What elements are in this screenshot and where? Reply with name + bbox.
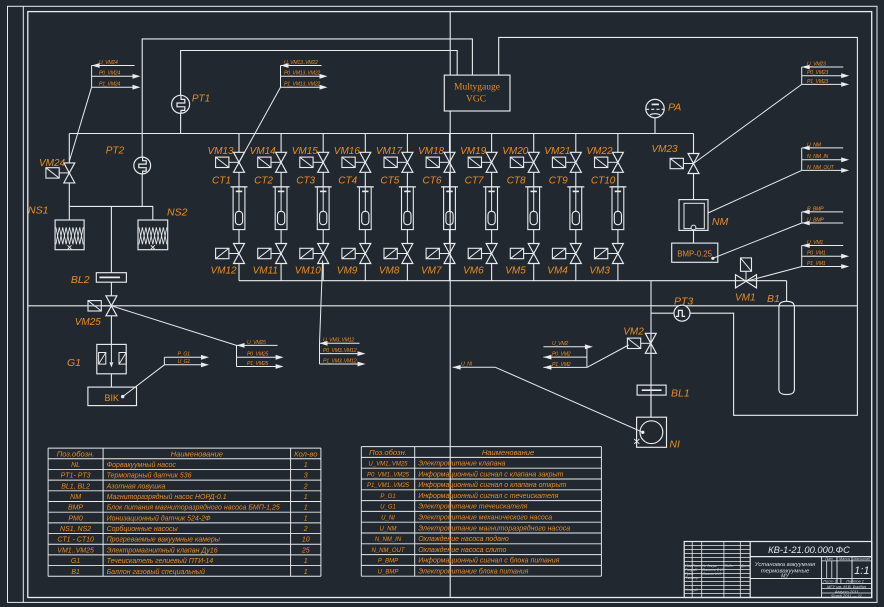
svg-text:BL1: BL1 bbox=[671, 388, 690, 400]
wire VM22 to CT10 bbox=[617, 172, 619, 187]
valve VM12 bbox=[216, 244, 245, 264]
node signal group VM3..VM12 bbox=[320, 338, 366, 367]
valve VM9 bbox=[342, 244, 371, 264]
svg-text:Электропитание блока питания: Электропитание блока питания bbox=[418, 568, 528, 576]
filing margin line bbox=[22, 6, 24, 602]
wire VM5 to bottom manifold bbox=[533, 264, 535, 281]
svg-text:CT9: CT9 bbox=[549, 176, 568, 187]
svg-text:Информационный сигнал с течеис: Информационный сигнал с течеискателя bbox=[418, 492, 558, 500]
cryo chamber CT3 bbox=[315, 187, 332, 230]
cryo chamber CT6 bbox=[441, 187, 458, 230]
wire CT7 to VM6 bbox=[491, 230, 493, 244]
svg-text:U_VM1..VM25: U_VM1..VM25 bbox=[368, 462, 408, 468]
wire VM12 to bottom manifold bbox=[238, 264, 240, 281]
svg-text:VM14: VM14 bbox=[250, 146, 277, 157]
node signal group G1 bbox=[164, 352, 209, 368]
wire BL1 to NI bbox=[650, 395, 652, 417]
svg-text:BL1, BL2: BL1, BL2 bbox=[61, 483, 90, 490]
svg-text:Подп.: Подп. bbox=[725, 564, 734, 568]
svg-text:1: 1 bbox=[304, 558, 308, 565]
valve VM24 bbox=[46, 163, 75, 183]
node signal group VM23 bbox=[802, 61, 850, 86]
svg-text:CT8: CT8 bbox=[507, 176, 526, 187]
wire VM25 to G1 bbox=[110, 316, 112, 345]
node signal group BMP bbox=[802, 206, 844, 225]
valve VM8 bbox=[384, 244, 413, 264]
valve VM17 bbox=[384, 152, 413, 172]
wire signal VM13 bbox=[239, 87, 281, 162]
valve VM1 bbox=[736, 258, 757, 288]
wire VM16 to CT4 bbox=[364, 172, 366, 187]
parts table left bbox=[48, 448, 321, 576]
node signal group VM1 bbox=[802, 240, 850, 269]
wire column VM19 riser bbox=[491, 134, 493, 153]
wire signal G1 bbox=[123, 365, 165, 397]
title block bbox=[684, 542, 872, 598]
cryo chamber CT4 bbox=[357, 187, 374, 230]
control unit BIK bbox=[88, 387, 137, 406]
svg-text:P0_VM1: P0_VM1 bbox=[807, 251, 826, 257]
svg-text:VM24: VM24 bbox=[39, 158, 66, 169]
wire VM24 to NS manifold bbox=[68, 183, 70, 207]
svg-text:N_NM_OUT: N_NM_OUT bbox=[807, 165, 835, 171]
wire top bus bbox=[69, 133, 693, 135]
wire bottom manifold of valve columns bbox=[239, 280, 787, 282]
svg-text:G1: G1 bbox=[71, 558, 80, 565]
svg-text:Информационный сигнал о клапан: Информационный сигнал о клапана открыт bbox=[418, 481, 566, 489]
wire column VM14 riser bbox=[280, 134, 282, 153]
svg-text:NL: NL bbox=[71, 462, 80, 469]
svg-text:P1_VM24: P1_VM24 bbox=[99, 82, 120, 88]
svg-text:1: 1 bbox=[304, 505, 308, 512]
wire B1 neck bbox=[786, 281, 788, 302]
gauge PA bbox=[646, 99, 664, 117]
svg-text:1: 1 bbox=[304, 494, 308, 501]
node signal U_NI bbox=[453, 362, 496, 370]
svg-text:Информационный сигнал с клапан: Информационный сигнал с клапана закрыт bbox=[418, 470, 563, 478]
wire VM9 to bottom manifold bbox=[364, 264, 366, 281]
wire column VM22 riser bbox=[617, 134, 619, 153]
valve VM11 bbox=[258, 244, 287, 264]
wire signal trunk upper bbox=[449, 12, 451, 76]
wire NM to BMP bbox=[693, 230, 695, 243]
svg-text:PT2: PT2 bbox=[106, 145, 125, 156]
wire PA stub bbox=[654, 118, 656, 134]
wire CT2 to VM11 bbox=[280, 230, 282, 244]
gauge PT1 bbox=[172, 95, 190, 113]
svg-text:VM18: VM18 bbox=[418, 146, 445, 157]
wire PT1 lower stub bbox=[180, 113, 182, 133]
svg-text:P_G1: P_G1 bbox=[380, 494, 395, 500]
valve VM23 bbox=[670, 154, 699, 174]
wire G1 to BIK bbox=[110, 374, 112, 387]
wire NS1 stub bbox=[68, 206, 70, 220]
node signal group VM13..VM22 bbox=[281, 60, 328, 90]
svg-text:Иванов И.И.: Иванов И.И. bbox=[703, 572, 722, 576]
wire column VM16 riser bbox=[364, 134, 366, 153]
wire PT2 upper stub bbox=[141, 134, 143, 158]
cryo chamber CT2 bbox=[273, 187, 290, 230]
wire VM21 to CT9 bbox=[575, 172, 577, 187]
svg-text:2: 2 bbox=[303, 483, 308, 490]
wire VM7 to bottom manifold bbox=[449, 264, 451, 281]
svg-text:U_VM1: U_VM1 bbox=[807, 240, 823, 246]
wire column VM13 riser bbox=[238, 134, 240, 153]
svg-text:P1_VM23: P1_VM23 bbox=[807, 79, 828, 85]
svg-text:PT1: PT1 bbox=[192, 93, 210, 104]
svg-text:P0_VM23: P0_VM23 bbox=[807, 70, 828, 76]
cryo chamber CT7 bbox=[483, 187, 500, 230]
wire VM24 riser bbox=[68, 134, 70, 163]
svg-text:Лит.: Лит. bbox=[824, 557, 833, 561]
svg-text:U_VM23: U_VM23 bbox=[807, 61, 826, 67]
svg-text:U_VM24: U_VM24 bbox=[99, 60, 118, 66]
svg-text:VM10: VM10 bbox=[295, 265, 322, 276]
svg-text:Охлаждение насоса слито: Охлаждение насоса слито bbox=[418, 546, 506, 554]
svg-text:B1: B1 bbox=[767, 293, 780, 305]
svg-text:VM20: VM20 bbox=[502, 146, 529, 157]
cryo chamber CT1 bbox=[231, 187, 248, 230]
valve VM13 bbox=[216, 152, 245, 172]
wire signal VM1 bbox=[746, 267, 802, 282]
magnetodischarge pump NM bbox=[679, 200, 708, 231]
sorption pump NS2 bbox=[138, 220, 168, 250]
svg-text:N_NM_OUT: N_NM_OUT bbox=[371, 548, 405, 554]
svg-text:Блок питания магниторазрядного: Блок питания магниторазрядного насоса БМ… bbox=[107, 504, 280, 512]
svg-text:U_VM3..VM12: U_VM3..VM12 bbox=[323, 338, 354, 344]
valve VM4 bbox=[552, 244, 581, 264]
svg-text:Прогреваемые вакуумные камеры: Прогреваемые вакуумные камеры bbox=[107, 537, 221, 544]
svg-text:Поз.обозн.: Поз.обозн. bbox=[57, 449, 95, 458]
svg-text:Наименование: Наименование bbox=[171, 449, 223, 458]
gauge PT3 bbox=[674, 305, 690, 321]
valve VM19 bbox=[468, 152, 497, 172]
cryo chamber CT5 bbox=[399, 187, 416, 230]
wire signal VM23 bbox=[694, 84, 802, 163]
node signal group NM bbox=[802, 142, 850, 173]
svg-text:B1: B1 bbox=[71, 569, 80, 576]
svg-text:CT4: CT4 bbox=[338, 176, 357, 187]
svg-text:U_NM: U_NM bbox=[807, 142, 822, 148]
sorption pump NS1 bbox=[55, 220, 84, 250]
wire CT1 to VM12 bbox=[238, 230, 240, 244]
svg-text:Электропитание механического н: Электропитание механического насоса bbox=[418, 515, 552, 522]
svg-text:U_VM2: U_VM2 bbox=[552, 341, 568, 347]
valve VM25 bbox=[88, 296, 117, 316]
svg-text:3: 3 bbox=[304, 473, 308, 480]
svg-text:VM19: VM19 bbox=[460, 146, 487, 157]
svg-text:VM1: VM1 bbox=[735, 292, 756, 303]
svg-text:VM5: VM5 bbox=[505, 265, 526, 276]
wire VM8 to bottom manifold bbox=[406, 264, 408, 281]
svg-text:PM0: PM0 bbox=[68, 515, 83, 522]
wire main roughing line bbox=[29, 305, 858, 307]
svg-text:Течеискатель гелиевый ПТИ-14: Течеискатель гелиевый ПТИ-14 bbox=[107, 557, 214, 565]
svg-text:1: 1 bbox=[304, 462, 308, 469]
valve VM2 bbox=[627, 333, 656, 353]
svg-text:P0_VM1..VM25: P0_VM1..VM25 bbox=[367, 472, 410, 478]
wire VM19 to CT7 bbox=[491, 172, 493, 187]
wire column VM18 riser bbox=[449, 134, 451, 153]
svg-text:CT2: CT2 bbox=[254, 176, 273, 187]
svg-text:P0_VM13..VM22: P0_VM13..VM22 bbox=[284, 71, 320, 77]
svg-text:CT7: CT7 bbox=[465, 176, 484, 187]
valve VM6 bbox=[468, 244, 497, 264]
svg-text:P_G1: P_G1 bbox=[178, 352, 191, 358]
svg-text:U_NM: U_NM bbox=[379, 526, 396, 532]
svg-text:NS1: NS1 bbox=[28, 205, 48, 217]
svg-text:VM21: VM21 bbox=[544, 146, 570, 157]
svg-text:Азотная ловушка: Азотная ловушка bbox=[106, 483, 166, 490]
wire VM4 to bottom manifold bbox=[575, 264, 577, 281]
svg-text:BL2: BL2 bbox=[71, 274, 90, 286]
svg-text:Установка вакуумная: Установка вакуумная bbox=[754, 562, 816, 568]
svg-text:1:1: 1:1 bbox=[854, 565, 869, 577]
svg-text:NI: NI bbox=[669, 438, 680, 450]
wire column VM17 riser bbox=[406, 134, 408, 153]
wire column VM20 riser bbox=[533, 134, 535, 153]
svg-text:Сорбционные насосы: Сорбционные насосы bbox=[107, 525, 179, 533]
wire VM23 riser bbox=[693, 134, 695, 154]
wire signal trunk lower bbox=[449, 111, 451, 598]
svg-text:VM11: VM11 bbox=[253, 265, 278, 276]
svg-text:Электропитание клапана: Электропитание клапана bbox=[418, 461, 505, 468]
gauge PT2 bbox=[134, 157, 151, 174]
node signal group VM2 bbox=[543, 341, 593, 370]
svg-text:VM2: VM2 bbox=[623, 326, 644, 337]
svg-text:U_BMP: U_BMP bbox=[378, 570, 399, 576]
cryo chamber CT9 bbox=[567, 187, 584, 230]
svg-text:PT3: PT3 bbox=[674, 295, 693, 307]
wire CT9 to VM4 bbox=[575, 230, 577, 244]
svg-text:Дата: Дата bbox=[740, 564, 750, 568]
wire signal VM24 bbox=[69, 87, 91, 161]
wire CT6 to VM7 bbox=[449, 230, 451, 244]
svg-text:10: 10 bbox=[302, 537, 310, 544]
svg-text:Баллон газовый специальный: Баллон газовый специальный bbox=[107, 568, 205, 576]
svg-text:CT1: CT1 bbox=[212, 176, 231, 187]
svg-text:P_BMP: P_BMP bbox=[378, 559, 398, 565]
svg-text:Multygauge: Multygauge bbox=[454, 83, 500, 93]
svg-text:VM22: VM22 bbox=[586, 146, 613, 157]
wire VM15 to CT3 bbox=[322, 172, 324, 187]
svg-text:G1: G1 bbox=[67, 357, 81, 369]
svg-text:P1_VM2: P1_VM2 bbox=[552, 362, 571, 368]
valve VM7 bbox=[426, 244, 455, 264]
wire VM18 to CT6 bbox=[449, 172, 451, 187]
wire PT2 gauge pipe to Multygauge bbox=[142, 39, 472, 134]
svg-text:Форвакуумный насос: Форвакуумный насос bbox=[107, 461, 177, 469]
svg-text:Электромагнитный клапан Ду16: Электромагнитный клапан Ду16 bbox=[107, 546, 218, 554]
svg-text:VM12: VM12 bbox=[211, 265, 238, 276]
svg-text:CT10: CT10 bbox=[591, 176, 616, 187]
wire BL2 to VM25 bbox=[110, 282, 112, 296]
wire VM10 to bottom manifold bbox=[322, 264, 324, 281]
svg-text:VM15: VM15 bbox=[292, 146, 319, 157]
svg-text:VM1..VM25: VM1..VM25 bbox=[57, 547, 94, 554]
svg-text:VM6: VM6 bbox=[463, 265, 484, 276]
valve VM18 bbox=[426, 152, 455, 172]
svg-text:VM23: VM23 bbox=[652, 144, 679, 155]
wire VM17 to CT5 bbox=[406, 172, 408, 187]
svg-text:CT6: CT6 bbox=[423, 176, 442, 187]
svg-text:BMP: BMP bbox=[68, 505, 84, 512]
gas bottle B1 bbox=[779, 301, 795, 394]
svg-text:BIK: BIK bbox=[105, 393, 120, 403]
svg-text:P0_VM25: P0_VM25 bbox=[247, 352, 268, 358]
wire VM14 to CT2 bbox=[280, 172, 282, 187]
svg-text:PA: PA bbox=[668, 101, 681, 113]
svg-text:VM17: VM17 bbox=[376, 146, 403, 157]
valve VM5 bbox=[510, 244, 539, 264]
valve VM14 bbox=[258, 152, 287, 172]
wire PT3 branch line bbox=[650, 281, 652, 418]
svg-text:Физф 2011 — 11: Физф 2011 — 11 bbox=[831, 593, 862, 598]
valve VM3 bbox=[595, 244, 624, 264]
wire column VM15 riser bbox=[322, 134, 324, 153]
svg-text:Термопарный датчик 536: Термопарный датчик 536 bbox=[107, 472, 192, 480]
svg-text:P1_VM1: P1_VM1 bbox=[807, 261, 826, 267]
wire NS2 stub bbox=[152, 206, 154, 220]
Multygauge VGC controller bbox=[444, 75, 510, 111]
wire CT4 to VM9 bbox=[364, 230, 366, 244]
svg-text:VM4: VM4 bbox=[547, 265, 568, 276]
svg-text:VM3: VM3 bbox=[589, 265, 610, 276]
signals table right bbox=[361, 447, 601, 577]
svg-text:VM8: VM8 bbox=[379, 265, 400, 276]
svg-text:VGC: VGC bbox=[466, 95, 486, 105]
wire PT3 loop pipe to Multygauge bbox=[499, 37, 858, 415]
mechanical pump NI bbox=[637, 417, 667, 447]
svg-text:Масса: Масса bbox=[839, 557, 850, 561]
svg-text:VM16: VM16 bbox=[334, 146, 361, 157]
wire NS manifold bbox=[69, 205, 153, 207]
valve VM22 bbox=[595, 152, 624, 172]
wire VM11 to bottom manifold bbox=[280, 264, 282, 281]
svg-text:U_VM25: U_VM25 bbox=[247, 340, 266, 346]
svg-text:P1_VM13..VM22: P1_VM13..VM22 bbox=[284, 82, 320, 88]
svg-text:VM13: VM13 bbox=[208, 146, 235, 157]
svg-text:N_NM_IN: N_NM_IN bbox=[807, 154, 829, 160]
wire PT2 lower stub bbox=[141, 174, 143, 207]
svg-text:P0_VM24: P0_VM24 bbox=[99, 71, 120, 77]
wire VM13 to CT1 bbox=[238, 172, 240, 187]
wire VM3 to bottom manifold bbox=[617, 264, 619, 281]
valve VM15 bbox=[300, 152, 329, 172]
cryo chamber CT8 bbox=[525, 187, 542, 230]
svg-text:CT1 - CT10: CT1 - CT10 bbox=[57, 537, 94, 544]
svg-text:Поз.обозн.: Поз.обозн. bbox=[369, 448, 407, 457]
svg-text:Информационный сигнал с блока: Информационный сигнал с блока питания bbox=[418, 557, 559, 565]
svg-text:VM9: VM9 bbox=[337, 265, 358, 276]
svg-text:PT1- PT3: PT1- PT3 bbox=[61, 473, 91, 480]
svg-text:25: 25 bbox=[301, 547, 310, 554]
wire signal VM25 bbox=[111, 306, 236, 346]
svg-text:U_G1: U_G1 bbox=[380, 505, 396, 511]
wire signal NM bbox=[708, 170, 802, 213]
valve VM10 bbox=[300, 244, 329, 264]
svg-text:Магниторазрядный насос НОРД-0.: Магниторазрядный насос НОРД-0.1 bbox=[107, 493, 227, 501]
svg-text:1: 1 bbox=[304, 515, 308, 522]
svg-text:NM: NM bbox=[70, 494, 81, 501]
valve VM16 bbox=[342, 152, 371, 172]
nitrogen trap BL1 bbox=[637, 385, 666, 395]
svg-text:P1_VM1..VM25: P1_VM1..VM25 bbox=[367, 483, 410, 489]
svg-text:N_NM_IN: N_NM_IN bbox=[375, 537, 402, 543]
wire column VM21 riser bbox=[575, 134, 577, 153]
wire VM6 to bottom manifold bbox=[491, 264, 493, 281]
svg-text:VM7: VM7 bbox=[421, 265, 442, 276]
svg-text:Охлаждение насоса подано: Охлаждение насоса подано bbox=[418, 535, 509, 543]
svg-text:NS1, NS2: NS1, NS2 bbox=[60, 526, 91, 533]
svg-text:Наименование: Наименование bbox=[482, 448, 534, 457]
svg-text:2: 2 bbox=[303, 526, 308, 533]
svg-text:U_NI: U_NI bbox=[381, 516, 395, 522]
svg-text:U_VM13..VM22: U_VM13..VM22 bbox=[284, 60, 318, 66]
svg-text:Кол-во: Кол-во bbox=[294, 449, 317, 458]
wire PT1 gauge pipe to Multygauge bbox=[181, 51, 458, 96]
svg-text:Т.контр.: Т.контр. bbox=[685, 576, 699, 580]
svg-text:КВ-1-21.00.000.ФС: КВ-1-21.00.000.ФС bbox=[768, 544, 850, 555]
cryo chamber CT10 bbox=[609, 187, 626, 230]
svg-text:Электропитание течеискателя: Электропитание течеискателя bbox=[418, 504, 527, 511]
svg-text:Масштаб: Масштаб bbox=[853, 557, 871, 561]
node signal group VM24 bbox=[92, 60, 141, 90]
svg-text:NM: NM bbox=[712, 216, 729, 228]
svg-text:ВМР-0.25: ВМР-0.25 bbox=[677, 249, 712, 258]
svg-text:P0_VM2: P0_VM2 bbox=[552, 352, 571, 358]
wire CT3 to VM10 bbox=[322, 230, 324, 244]
svg-text:Ионизационный датчик 524-2Ф: Ионизационный датчик 524-2Ф bbox=[107, 514, 211, 522]
svg-text:P1_VM3..VM12: P1_VM3..VM12 bbox=[323, 358, 357, 364]
node signal group VM25 bbox=[237, 340, 284, 369]
svg-text:VM25: VM25 bbox=[75, 317, 102, 328]
wire CT5 to VM8 bbox=[406, 230, 408, 244]
wire VM23 to NM bbox=[693, 174, 695, 200]
svg-text:NS2: NS2 bbox=[167, 206, 188, 218]
nitrogen trap BL2 bbox=[96, 273, 126, 283]
svg-text:Электропитание магниторазрядно: Электропитание магниторазрядного насоса bbox=[418, 524, 570, 532]
wire signal VM2 bbox=[587, 345, 629, 367]
svg-text:P_BMP: P_BMP bbox=[807, 206, 824, 212]
valve VM21 bbox=[552, 152, 581, 172]
wire CT8 to VM5 bbox=[533, 230, 535, 244]
svg-text:U_NI: U_NI bbox=[461, 362, 473, 368]
wire CT10 to VM3 bbox=[617, 230, 619, 244]
wire BL2 column upper bbox=[110, 206, 112, 272]
svg-text:CT5: CT5 bbox=[380, 176, 399, 187]
power supply BMP-0.25 bbox=[672, 243, 718, 262]
svg-text:P0_VM3..VM12: P0_VM3..VM12 bbox=[323, 348, 357, 354]
wire VM20 to CT8 bbox=[533, 172, 535, 187]
svg-text:U_G1: U_G1 bbox=[178, 359, 191, 365]
wire signal NI bbox=[495, 367, 642, 432]
valve VM20 bbox=[510, 152, 539, 172]
leak detector G1 bbox=[97, 344, 126, 373]
wire signal BMP bbox=[713, 223, 802, 258]
svg-text:Утверд.: Утверд. bbox=[685, 588, 698, 592]
svg-text:1: 1 bbox=[304, 569, 308, 576]
svg-text:P1_VM25: P1_VM25 bbox=[247, 361, 268, 367]
svg-text:U_BMP: U_BMP bbox=[807, 217, 824, 223]
svg-text:CT3: CT3 bbox=[296, 176, 315, 187]
wire signal VM10 bbox=[320, 261, 323, 344]
